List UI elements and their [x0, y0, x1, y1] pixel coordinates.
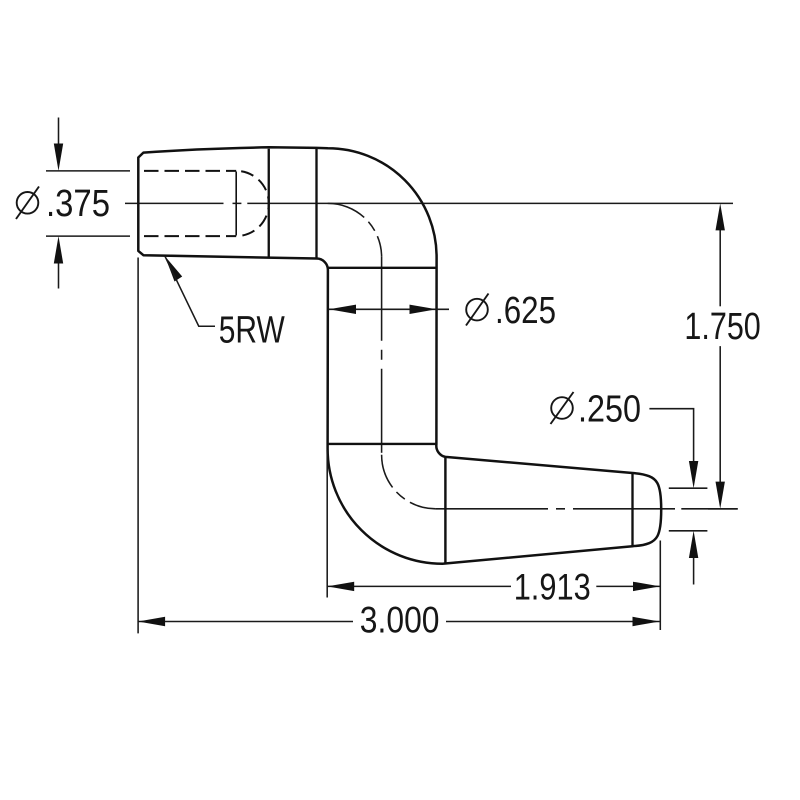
edge line socket end	[268, 149, 270, 258]
dim 3.000 extension left	[137, 258, 139, 634]
dim 1.750 line top	[719, 228, 721, 306]
dim 0.250 extension bottom	[669, 530, 708, 532]
label diameter symbol 0.625	[466, 294, 489, 326]
edge line tip start	[631, 473, 633, 546]
arrow 1.750 bottom	[716, 482, 725, 509]
wire centerline bend path	[328, 203, 382, 256]
svg-text:.250: .250	[578, 389, 641, 431]
arrow 1.913 right	[633, 582, 660, 591]
arrow 1.750 top	[716, 203, 725, 230]
edge tangent line upper bend bottom	[328, 267, 436, 269]
dim 0.375 line top	[58, 118, 60, 147]
dim 0.375 extension top	[46, 170, 130, 172]
dim 3.000 line right	[446, 621, 660, 623]
dim 0.250 extension top	[669, 487, 708, 489]
arrow 1.913 left	[327, 582, 354, 591]
wire centerline vertical	[381, 257, 383, 455]
arrow 3.000 left	[138, 617, 165, 626]
dim 1.913 line right	[596, 585, 660, 587]
wire centerline horizontal top (part axis)	[125, 202, 733, 204]
arrow 0.375 top	[54, 144, 63, 171]
leader 5RW line	[165, 256, 215, 326]
label diameter symbol 0.250	[551, 392, 574, 424]
dim 0.625 line	[329, 308, 449, 310]
svg-text:1.913: 1.913	[514, 566, 591, 608]
arrow 0.625 left	[329, 305, 356, 314]
svg-text:3.000: 3.000	[360, 599, 440, 641]
svg-text:.625: .625	[495, 290, 556, 332]
leader 5RW arrow	[165, 256, 182, 281]
wire centerline arm horizontal	[436, 508, 738, 510]
edge line bend start top	[315, 149, 317, 259]
arrow 0.250 bottom	[689, 531, 698, 558]
dim 0.250 line bottom tail	[693, 558, 695, 585]
edge tangent line lower bend top	[328, 443, 437, 445]
svg-text:.375: .375	[46, 183, 110, 225]
hidden hole top edge	[144, 170, 236, 172]
svg-text:1.750: 1.750	[684, 306, 760, 348]
dim 1.750 extension bottom	[708, 508, 738, 510]
edge tangent line lower arm start	[444, 457, 446, 564]
dim 3.000 line left	[138, 621, 353, 623]
dim 0.375 extension bottom	[46, 235, 130, 237]
dim right extension shared	[659, 541, 661, 631]
arrow 0.625 right	[410, 305, 437, 314]
dim 1.750 line bottom	[719, 346, 721, 483]
dim 1.913 line left	[327, 585, 511, 587]
arrow 3.000 right	[633, 617, 660, 626]
leader 0.250 horizontal	[649, 409, 693, 463]
hidden hole bottom edge	[144, 235, 236, 237]
arrow 0.250 top	[689, 461, 698, 488]
hidden hole end arc	[236, 171, 269, 236]
edge hole depth line	[235, 172, 237, 236]
svg-text:5RW: 5RW	[219, 310, 285, 352]
part outline (crank body)	[138, 147, 661, 563]
dim 1.913 extension left	[326, 450, 328, 598]
dim 0.375 line bottom	[58, 262, 60, 289]
label diameter symbol 0.375	[16, 187, 39, 220]
wire centerline lower bend arc	[382, 455, 436, 509]
arrow 0.375 bottom	[54, 236, 63, 263]
